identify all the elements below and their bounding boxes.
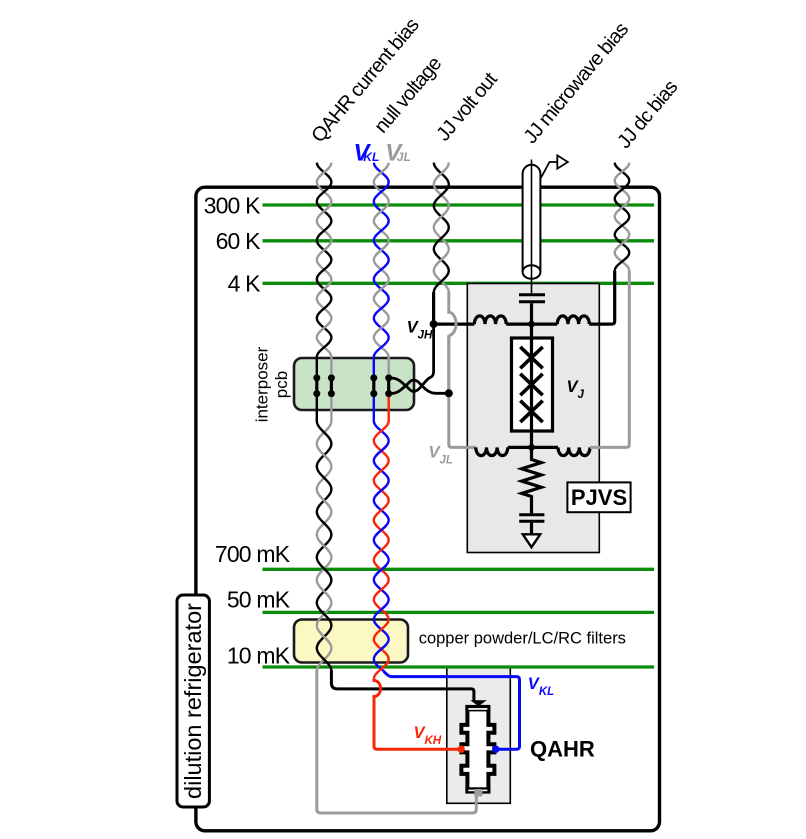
svg-text:interposer: interposer (253, 346, 272, 422)
PJVS gray box (467, 284, 599, 553)
QAHR sample gray box (447, 667, 511, 803)
JJ dc bias twisted pair (black conductor) (615, 163, 630, 271)
contact dot VKL (blue) (492, 746, 499, 753)
svg-text:dilution refrigerator: dilution refrigerator (180, 603, 206, 799)
wire L3 to node (508, 446, 532, 449)
bias resistor R1 (522, 447, 542, 513)
interposer feedthrough connector (387, 378, 390, 394)
svg-text:10 mK: 10 mK (227, 642, 291, 668)
junction dot on VJL wire (445, 389, 453, 397)
junction dot VJH node (430, 320, 438, 328)
svg-text:300 K: 300 K (204, 192, 262, 218)
QAHR current bias pair lower (gray conductor) (317, 394, 332, 671)
svg-text:pcb: pcb (272, 371, 291, 398)
bottom contact (gray) (474, 789, 482, 796)
QAHR current bias twisted pair upper (black conductor) (317, 163, 332, 378)
braid over-crossings pair3 (436, 168, 446, 265)
contact dot VKH (red) (458, 746, 465, 753)
QAHR gray wire run to hall bar bottom (317, 670, 477, 813)
svg-text:700 mK: 700 mK (215, 541, 291, 567)
JJ array center line (530, 324, 533, 447)
interposer pcb green box (294, 358, 414, 410)
VJL gray wire hop over VJH (449, 292, 456, 335)
coax center conductor (531, 160, 533, 294)
antenna feed line (541, 162, 558, 179)
svg-text:JJ volt out: JJ volt out (432, 68, 502, 145)
JJ dc bias twisted pair (gray conductor) (615, 163, 630, 271)
wire between L1 and node (506, 323, 531, 326)
QAHR black wire run to hall bar top (331, 670, 474, 701)
upper-right inductor L2 (557, 316, 589, 324)
gray wire run JJ dc bias to lower-right inductor (590, 271, 629, 448)
wire node to lower-right inductor L4 (532, 446, 559, 449)
null voltage twisted pair upper (gray conductor) (374, 163, 389, 378)
lower-right inductor L4 (558, 447, 590, 455)
node J bottom (528, 444, 535, 451)
braid over-crossings pair4 (616, 166, 628, 248)
JJ volt out twisted pair (gray conductor VJL) (434, 163, 449, 313)
temperature stage line 4 K (263, 282, 655, 285)
copper powder filter yellow box (294, 620, 408, 663)
wire node to right inductor L2 (532, 323, 558, 326)
dilution refrigerator outline box (196, 187, 660, 831)
JJ volt out twisted pair (black conductor VJH) (434, 163, 449, 325)
svg-text:JJ dc bias: JJ dc bias (613, 76, 682, 153)
braid over-crossings pair2 lower (376, 446, 387, 655)
hall bar top ohmic contact (465, 705, 490, 712)
coax capsule JJ microwave line (523, 165, 541, 272)
temperature stage line 10 mK (263, 665, 655, 668)
current contact triangle (black) (470, 700, 486, 706)
svg-text:JJ microwave bias: JJ microwave bias (520, 18, 634, 147)
null voltage pair lower (blue conductor VKL) (374, 394, 389, 671)
VJL gray wire segment to junction (447, 335, 450, 393)
interposer feedthrough connector (315, 378, 318, 394)
braid over-crossings pair1 lower (319, 450, 329, 642)
braid over-crossings pair2 upper (376, 167, 387, 333)
wire VJL gray to lower-left inductor (449, 335, 476, 447)
svg-text:60 K: 60 K (216, 228, 262, 254)
red VKH wire run to hall bar left contact (374, 679, 458, 749)
temperature stage line 60 K (263, 239, 655, 242)
ground symbol (523, 534, 540, 547)
node J top (528, 321, 535, 328)
svg-text:copper powder/LC/RC filters: copper powder/LC/RC filters (419, 629, 626, 647)
svg-text:QAHR: QAHR (530, 736, 595, 761)
twisted link interposer to VJH/VJL (conductor B) (389, 380, 449, 394)
QAHR current bias twisted pair upper (gray conductor) (317, 163, 332, 378)
wire L2 to JJ dc bias (589, 271, 614, 325)
svg-text:PJVS: PJVS (571, 485, 627, 510)
svg-text:JL: JL (397, 150, 411, 164)
interposer feedthrough connector (330, 378, 333, 394)
null voltage pair lower (red conductor VKH) (374, 394, 389, 679)
wire cap to node (530, 303, 533, 325)
antenna triangle (557, 155, 568, 168)
wire C2 to ground (530, 521, 533, 534)
VJH black vertical wire (432, 292, 435, 324)
svg-text:50 mK: 50 mK (227, 587, 291, 613)
null voltage twisted pair upper (blue conductor VKL) (374, 163, 389, 378)
QAHR hall bar outline (461, 707, 494, 791)
JJ junction X1 (520, 347, 542, 368)
temperature stage line 50 mK (263, 611, 655, 614)
svg-text:KL: KL (363, 150, 379, 164)
temperature stage line 300 K (263, 203, 655, 206)
blue VKL wire run to hall bar right contact (384, 671, 520, 749)
svg-text:4 K: 4 K (228, 271, 262, 297)
lower-left inductor L3 (476, 447, 508, 455)
shunt capacitor C2 plates (519, 513, 544, 516)
JJ junction X3 (520, 401, 542, 422)
JJ junction X2 (520, 374, 542, 395)
wire VJH node to left inductor (434, 323, 475, 326)
dilution refrigerator label box (177, 595, 209, 807)
temperature stage line 700 mK (263, 568, 655, 571)
coax open end ellipse (523, 265, 541, 279)
coupling capacitor C1 plates (519, 293, 545, 296)
hall bar bottom ohmic contact (465, 787, 490, 793)
interposer feedthrough connector (372, 378, 375, 394)
upper-left inductor L1 (474, 316, 506, 324)
QAHR current bias pair lower (black conductor) (317, 394, 332, 671)
braid over-crossings pair1 upper (319, 167, 330, 333)
PJVS label box (567, 482, 630, 512)
JJ array box (512, 338, 553, 431)
twisted link interposer to VJH/VJL (conductor A) (389, 326, 434, 391)
